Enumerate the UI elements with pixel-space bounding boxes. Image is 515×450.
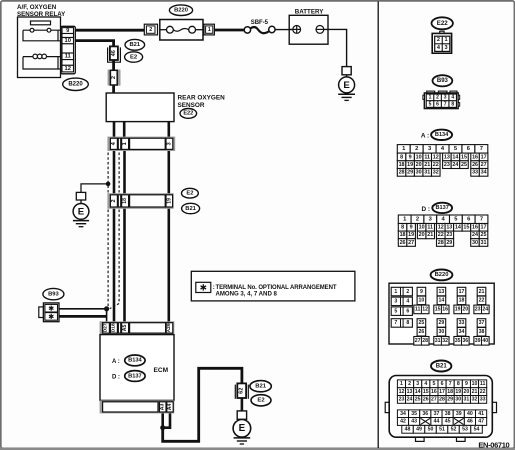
svg-text:A5: A5 [122, 324, 128, 331]
svg-text:3: 3 [166, 142, 172, 145]
relay contact line [23, 29, 62, 31]
wire: relay pin 9 to fuse terminal 2 [75, 29, 144, 32]
shielded signal wire E22-4 to ECM D18 [113, 150, 116, 323]
pinout connector B134 [397, 145, 410, 154]
svg-text:16: 16 [431, 389, 437, 395]
ECM bottom connector bar [100, 400, 175, 413]
svg-text:8: 8 [451, 101, 454, 107]
svg-text:10: 10 [419, 225, 425, 231]
svg-text:D18: D18 [110, 323, 116, 332]
svg-text:A :: A : [421, 132, 429, 139]
battery positive terminal [289, 28, 293, 30]
svg-text:19: 19 [455, 389, 461, 395]
svg-text:2: 2 [408, 381, 411, 387]
svg-text:16: 16 [442, 307, 448, 313]
fusible link SBF-5 [244, 27, 250, 33]
svg-text:AMONG 3, 4, 7 AND 8: AMONG 3, 4, 7 AND 8 [216, 291, 278, 298]
relay armature bar [31, 21, 51, 25]
svg-text:11: 11 [427, 225, 433, 231]
svg-text:22: 22 [433, 162, 439, 168]
svg-text:22: 22 [480, 389, 486, 395]
svg-text:19: 19 [408, 232, 414, 238]
svg-text:19: 19 [455, 307, 461, 313]
svg-text:2: 2 [406, 289, 409, 295]
wire: terminal 2 to rear oxygen sensor [112, 84, 115, 94]
wire: joint connector B93 upper to shield drain [59, 308, 107, 310]
svg-text:49: 49 [416, 427, 422, 433]
svg-text:8: 8 [401, 225, 404, 231]
svg-text:34: 34 [459, 329, 465, 335]
svg-text:6: 6 [406, 308, 409, 314]
svg-text:13: 13 [444, 154, 450, 160]
svg-text:16: 16 [472, 225, 478, 231]
svg-text:E2: E2 [257, 398, 265, 404]
wire: battery negative to ground [324, 29, 347, 67]
relay contact loop to pin 10 [23, 30, 62, 41]
panel divider line [377, 2, 379, 449]
svg-text:E22: E22 [183, 111, 193, 117]
svg-text:10: 10 [472, 381, 478, 387]
svg-text:14: 14 [455, 225, 461, 231]
junction: B93 to shield [104, 306, 109, 311]
oval B21 at terminal 62 [250, 381, 271, 392]
oval B21 at bar [182, 203, 200, 213]
svg-text:20: 20 [464, 389, 470, 395]
svg-text:BATTERY: BATTERY [295, 9, 324, 16]
svg-text:27: 27 [408, 240, 414, 246]
wire: ECM A3 down [161, 413, 164, 428]
svg-text:62: 62 [239, 388, 245, 394]
wire: sensor pin to E22 connector (x=114) [113, 121, 116, 138]
oval E22 sensor [180, 109, 197, 119]
svg-text:25: 25 [415, 397, 421, 403]
svg-text:34: 34 [400, 411, 406, 417]
svg-text:B93: B93 [48, 291, 59, 297]
svg-text:2: 2 [149, 27, 152, 33]
svg-text:A/F, OXYGEN: A/F, OXYGEN [17, 4, 57, 11]
svg-text:B21: B21 [185, 206, 196, 212]
svg-text:19: 19 [166, 198, 172, 204]
pin 10 [62, 38, 74, 44]
svg-text:18: 18 [447, 389, 453, 395]
pin 12 [62, 65, 74, 72]
svg-text:35: 35 [455, 338, 461, 344]
svg-text:E: E [239, 423, 246, 434]
svg-text:1: 1 [394, 289, 397, 295]
svg-text:11: 11 [65, 54, 72, 60]
pin 9 [62, 28, 74, 34]
svg-text:B21: B21 [255, 384, 267, 390]
svg-text:17: 17 [481, 154, 487, 160]
shield dashed line right [118, 153, 120, 193]
svg-text:15: 15 [463, 225, 469, 231]
battery negative terminal [316, 26, 324, 34]
svg-text:21: 21 [424, 162, 430, 168]
svg-text:A3: A3 [160, 403, 166, 410]
svg-text:12: 12 [64, 66, 70, 72]
svg-text:B134: B134 [128, 358, 142, 364]
ground E bottom right [237, 411, 246, 419]
ECM top connector bar [100, 321, 175, 334]
wire: relay pin 10 to connector terminal 46 [75, 41, 113, 48]
svg-text:B93: B93 [437, 78, 449, 84]
svg-text:1: 1 [122, 142, 128, 145]
svg-text:43: 43 [411, 419, 417, 425]
wire E22-3 to ECM A29 [168, 150, 171, 323]
pinout E22 oval [432, 17, 453, 29]
svg-text:4: 4 [451, 95, 454, 101]
svg-text:3: 3 [394, 299, 397, 305]
svg-text:32: 32 [472, 397, 478, 403]
svg-text:D27: D27 [103, 323, 109, 332]
svg-text:9: 9 [410, 225, 413, 231]
svg-text:24: 24 [482, 307, 488, 313]
wire: ECM ground run to terminal 62 [163, 368, 242, 441]
fuse terminal 2 [144, 24, 157, 35]
svg-text:2: 2 [415, 146, 418, 152]
svg-text:38: 38 [479, 329, 485, 335]
svg-text:36: 36 [422, 411, 428, 417]
wire: joint connector B93 lower [59, 315, 107, 318]
svg-text:22: 22 [479, 298, 485, 304]
svg-text:21: 21 [479, 289, 485, 295]
svg-text:27: 27 [431, 397, 437, 403]
svg-text:13: 13 [439, 289, 445, 295]
svg-text:A :: A : [112, 359, 120, 365]
wire: sensor pin to E22 connector (x=124) [123, 121, 126, 138]
svg-text:50: 50 [428, 427, 434, 433]
wire: sensor pin to E22 connector (x=168.8) [168, 121, 171, 138]
svg-text:5: 5 [432, 381, 435, 387]
svg-text:6: 6 [436, 101, 439, 107]
svg-text:21: 21 [472, 389, 478, 395]
pinout connector E22 [440, 31, 444, 33]
oval E2 at terminal 62 [251, 395, 271, 406]
oval E2 at terminal 46 [125, 52, 143, 62]
junction: A3/A4 ground wires [160, 425, 165, 430]
terminal 2 of sensor connector E22 [108, 70, 121, 86]
svg-text:9: 9 [465, 381, 468, 387]
svg-text:10: 10 [64, 38, 70, 44]
svg-text:12: 12 [433, 154, 439, 160]
junction: shield drain to ground [106, 182, 111, 187]
oval B137 in ECM [125, 371, 145, 382]
svg-text:37: 37 [479, 320, 485, 326]
svg-text:29: 29 [439, 320, 445, 326]
svg-text:10: 10 [416, 154, 422, 160]
svg-text:25: 25 [461, 162, 467, 168]
svg-text:4: 4 [424, 381, 427, 387]
svg-text:18: 18 [399, 162, 405, 168]
relay connector strip B220 [61, 26, 76, 74]
svg-text:24: 24 [472, 232, 478, 238]
svg-text:28: 28 [438, 240, 444, 246]
svg-text:18: 18 [122, 198, 128, 204]
svg-text:48: 48 [405, 427, 411, 433]
svg-text:28: 28 [399, 170, 405, 176]
svg-text:E2: E2 [130, 54, 138, 60]
svg-text:A4: A4 [167, 403, 173, 410]
svg-text:2: 2 [111, 76, 117, 79]
svg-text:B220: B220 [435, 272, 449, 278]
svg-text:28: 28 [422, 338, 428, 344]
svg-text:B220: B220 [68, 82, 83, 88]
svg-text:28: 28 [439, 397, 445, 403]
fuse body [160, 20, 203, 41]
oval E2 at bar [182, 188, 199, 198]
svg-text:1: 1 [400, 381, 403, 387]
svg-text:38: 38 [445, 411, 451, 417]
relay K1 box [18, 17, 61, 78]
svg-text:11: 11 [415, 307, 421, 313]
svg-text:14: 14 [452, 154, 458, 160]
shield dashed line left [107, 153, 109, 193]
svg-text:14: 14 [415, 389, 421, 395]
svg-text:35: 35 [411, 411, 417, 417]
signal wire E22-1 to ECM A5 [123, 150, 126, 323]
svg-text:10: 10 [419, 298, 425, 304]
svg-text:13: 13 [446, 225, 452, 231]
pinout connector B93 [427, 91, 435, 93]
oval B134 in ECM [125, 355, 145, 366]
svg-text:36: 36 [462, 338, 468, 344]
svg-text:19: 19 [407, 162, 413, 168]
svg-text:51: 51 [439, 427, 445, 433]
battery box [289, 15, 328, 44]
note box: terminal optional arrangement [191, 271, 355, 301]
svg-text:26: 26 [472, 162, 478, 168]
svg-text:31: 31 [464, 397, 470, 403]
svg-text:B21: B21 [129, 42, 140, 48]
terminal 62 connector B21/E2 [234, 385, 236, 399]
svg-text:1: 1 [445, 37, 448, 43]
svg-text:27: 27 [481, 162, 487, 168]
svg-text:32: 32 [433, 170, 439, 176]
svg-text:31: 31 [424, 170, 430, 176]
svg-text:39: 39 [456, 411, 462, 417]
svg-text:EN-06710: EN-06710 [478, 440, 509, 449]
fuse holder oval B220 [169, 5, 192, 16]
oval B21 at terminal 46 [125, 39, 145, 50]
svg-text:5: 5 [429, 101, 432, 107]
svg-text:29: 29 [447, 397, 453, 403]
svg-text:30: 30 [472, 240, 478, 246]
svg-text:2: 2 [416, 217, 419, 223]
pinout B93 oval [433, 75, 453, 86]
svg-text:9: 9 [409, 154, 412, 160]
svg-text:3: 3 [444, 95, 447, 101]
svg-text:44: 44 [434, 419, 440, 425]
svg-text:6: 6 [441, 381, 444, 387]
svg-text:21: 21 [427, 232, 433, 238]
svg-text:17: 17 [481, 225, 487, 231]
svg-text:29: 29 [446, 240, 452, 246]
svg-text:31: 31 [435, 338, 441, 344]
svg-text:12: 12 [399, 389, 405, 395]
svg-text:29: 29 [407, 170, 413, 176]
oval B93 [43, 288, 64, 299]
wire: ECM A4 down to junction [163, 413, 170, 428]
wire: shield drain down to ECM D27 [106, 309, 108, 323]
svg-text:7: 7 [480, 217, 483, 223]
svg-text:33: 33 [472, 170, 478, 176]
ground E left (shield drain) [76, 192, 85, 200]
svg-text:26: 26 [419, 329, 425, 335]
svg-text:7: 7 [394, 320, 397, 326]
wire: fuse terminal 1 to SBF-5 [214, 29, 244, 32]
ECM box [100, 335, 174, 401]
svg-text:ECM: ECM [154, 367, 169, 374]
terminal 46 connector B21/E2 [108, 47, 121, 62]
svg-text:46: 46 [111, 50, 117, 56]
joint connector B93 box [39, 307, 44, 318]
svg-text:23: 23 [444, 162, 450, 168]
connector bar E2/B21 [107, 193, 173, 209]
svg-text:7: 7 [444, 101, 447, 107]
svg-text:REAR OXYGEN: REAR OXYGEN [178, 94, 226, 101]
svg-text:1: 1 [208, 27, 211, 33]
svg-text:8: 8 [406, 320, 409, 326]
svg-text:30: 30 [439, 329, 445, 335]
svg-text:E2: E2 [186, 191, 193, 197]
svg-text:15: 15 [435, 307, 441, 313]
svg-text:17: 17 [459, 289, 465, 295]
svg-text:42: 42 [400, 419, 406, 425]
svg-text:E: E [343, 80, 350, 91]
pinout connector B137 [398, 215, 411, 224]
svg-text:52: 52 [451, 427, 457, 433]
svg-text:30: 30 [416, 170, 422, 176]
svg-text:30: 30 [455, 397, 461, 403]
svg-text:31: 31 [481, 240, 487, 246]
svg-text:8: 8 [400, 154, 403, 160]
svg-text:18: 18 [400, 232, 406, 238]
svg-text:8: 8 [457, 381, 460, 387]
svg-text:26: 26 [400, 240, 406, 246]
svg-text:39: 39 [475, 338, 481, 344]
svg-text:13: 13 [407, 389, 413, 395]
svg-text:1: 1 [429, 95, 432, 101]
connector bar E22 [107, 137, 175, 151]
relay contact circle left [30, 28, 34, 32]
svg-text:A29: A29 [166, 323, 172, 332]
svg-text:B21: B21 [436, 363, 448, 369]
svg-text:5: 5 [394, 308, 397, 314]
svg-text:4: 4 [406, 299, 409, 305]
svg-text:3: 3 [445, 45, 448, 51]
svg-text:SBF-5: SBF-5 [251, 20, 269, 26]
svg-text:15: 15 [423, 389, 429, 395]
svg-text:B134: B134 [435, 132, 449, 138]
svg-text:2: 2 [436, 95, 439, 101]
svg-text:40: 40 [467, 411, 473, 417]
svg-text:2: 2 [437, 37, 440, 43]
pin 11 [62, 53, 74, 60]
ground E for battery [342, 67, 351, 75]
svg-text:41: 41 [478, 411, 484, 417]
svg-text:40: 40 [482, 338, 488, 344]
svg-text:33: 33 [480, 397, 486, 403]
svg-text:47: 47 [478, 419, 484, 425]
svg-text:E: E [78, 206, 85, 217]
relay coil [23, 57, 62, 69]
wire: terminal 46 to terminal 2 of E22 [112, 59, 115, 71]
rear oxygen sensor box [106, 93, 174, 122]
svg-text:20: 20 [462, 307, 468, 313]
svg-text:33: 33 [459, 320, 465, 326]
svg-text:22: 22 [438, 232, 444, 238]
svg-text:54: 54 [474, 427, 480, 433]
svg-text:34: 34 [481, 170, 487, 176]
svg-text:23: 23 [399, 397, 405, 403]
svg-text:7: 7 [480, 146, 483, 152]
pinout B21 oval [431, 361, 451, 372]
svg-text:B137: B137 [128, 373, 142, 379]
svg-text:18: 18 [459, 298, 465, 304]
svg-text:D :: D : [112, 374, 120, 380]
relay contact circle right [47, 28, 51, 32]
svg-text:37: 37 [434, 411, 440, 417]
svg-text:24: 24 [452, 162, 458, 168]
svg-text:16: 16 [472, 154, 478, 160]
svg-text:B137: B137 [436, 205, 449, 211]
svg-text:3: 3 [416, 381, 419, 387]
wire: shield to left ground E [81, 184, 108, 193]
svg-text:20: 20 [419, 232, 425, 238]
svg-text:20: 20 [416, 162, 422, 168]
svg-text:46: 46 [467, 419, 473, 425]
svg-text:12: 12 [438, 225, 444, 231]
svg-text:25: 25 [481, 232, 487, 238]
svg-text:7: 7 [449, 381, 452, 387]
svg-text:14: 14 [439, 298, 445, 304]
svg-text:15: 15 [461, 154, 467, 160]
svg-text:2: 2 [111, 199, 117, 202]
pinout connector B220 [389, 283, 494, 344]
svg-text:9: 9 [420, 289, 423, 295]
svg-text:27: 27 [415, 338, 421, 344]
svg-text:32: 32 [442, 338, 448, 344]
svg-text:53: 53 [462, 427, 468, 433]
pinout connector B21 [385, 402, 389, 412]
svg-text:26: 26 [423, 397, 429, 403]
wire: terminal 62 to ground E [241, 398, 244, 412]
wire: SBF-5 to battery positive [275, 29, 293, 31]
svg-text:24: 24 [407, 397, 413, 403]
svg-text:23: 23 [446, 232, 452, 238]
svg-text:25: 25 [419, 320, 425, 326]
svg-text:11: 11 [424, 154, 430, 160]
fuse terminal 1 [204, 24, 214, 35]
svg-text:D :: D : [422, 206, 431, 213]
svg-text:B220: B220 [174, 8, 188, 14]
pinout B220 oval [431, 270, 453, 281]
svg-text:11: 11 [480, 381, 486, 387]
svg-text:45: 45 [445, 419, 451, 425]
svg-text:23: 23 [475, 307, 481, 313]
svg-text:17: 17 [439, 389, 445, 395]
relay connector oval B220 [63, 78, 89, 90]
svg-text:E22: E22 [437, 20, 449, 27]
svg-text:12: 12 [422, 307, 428, 313]
